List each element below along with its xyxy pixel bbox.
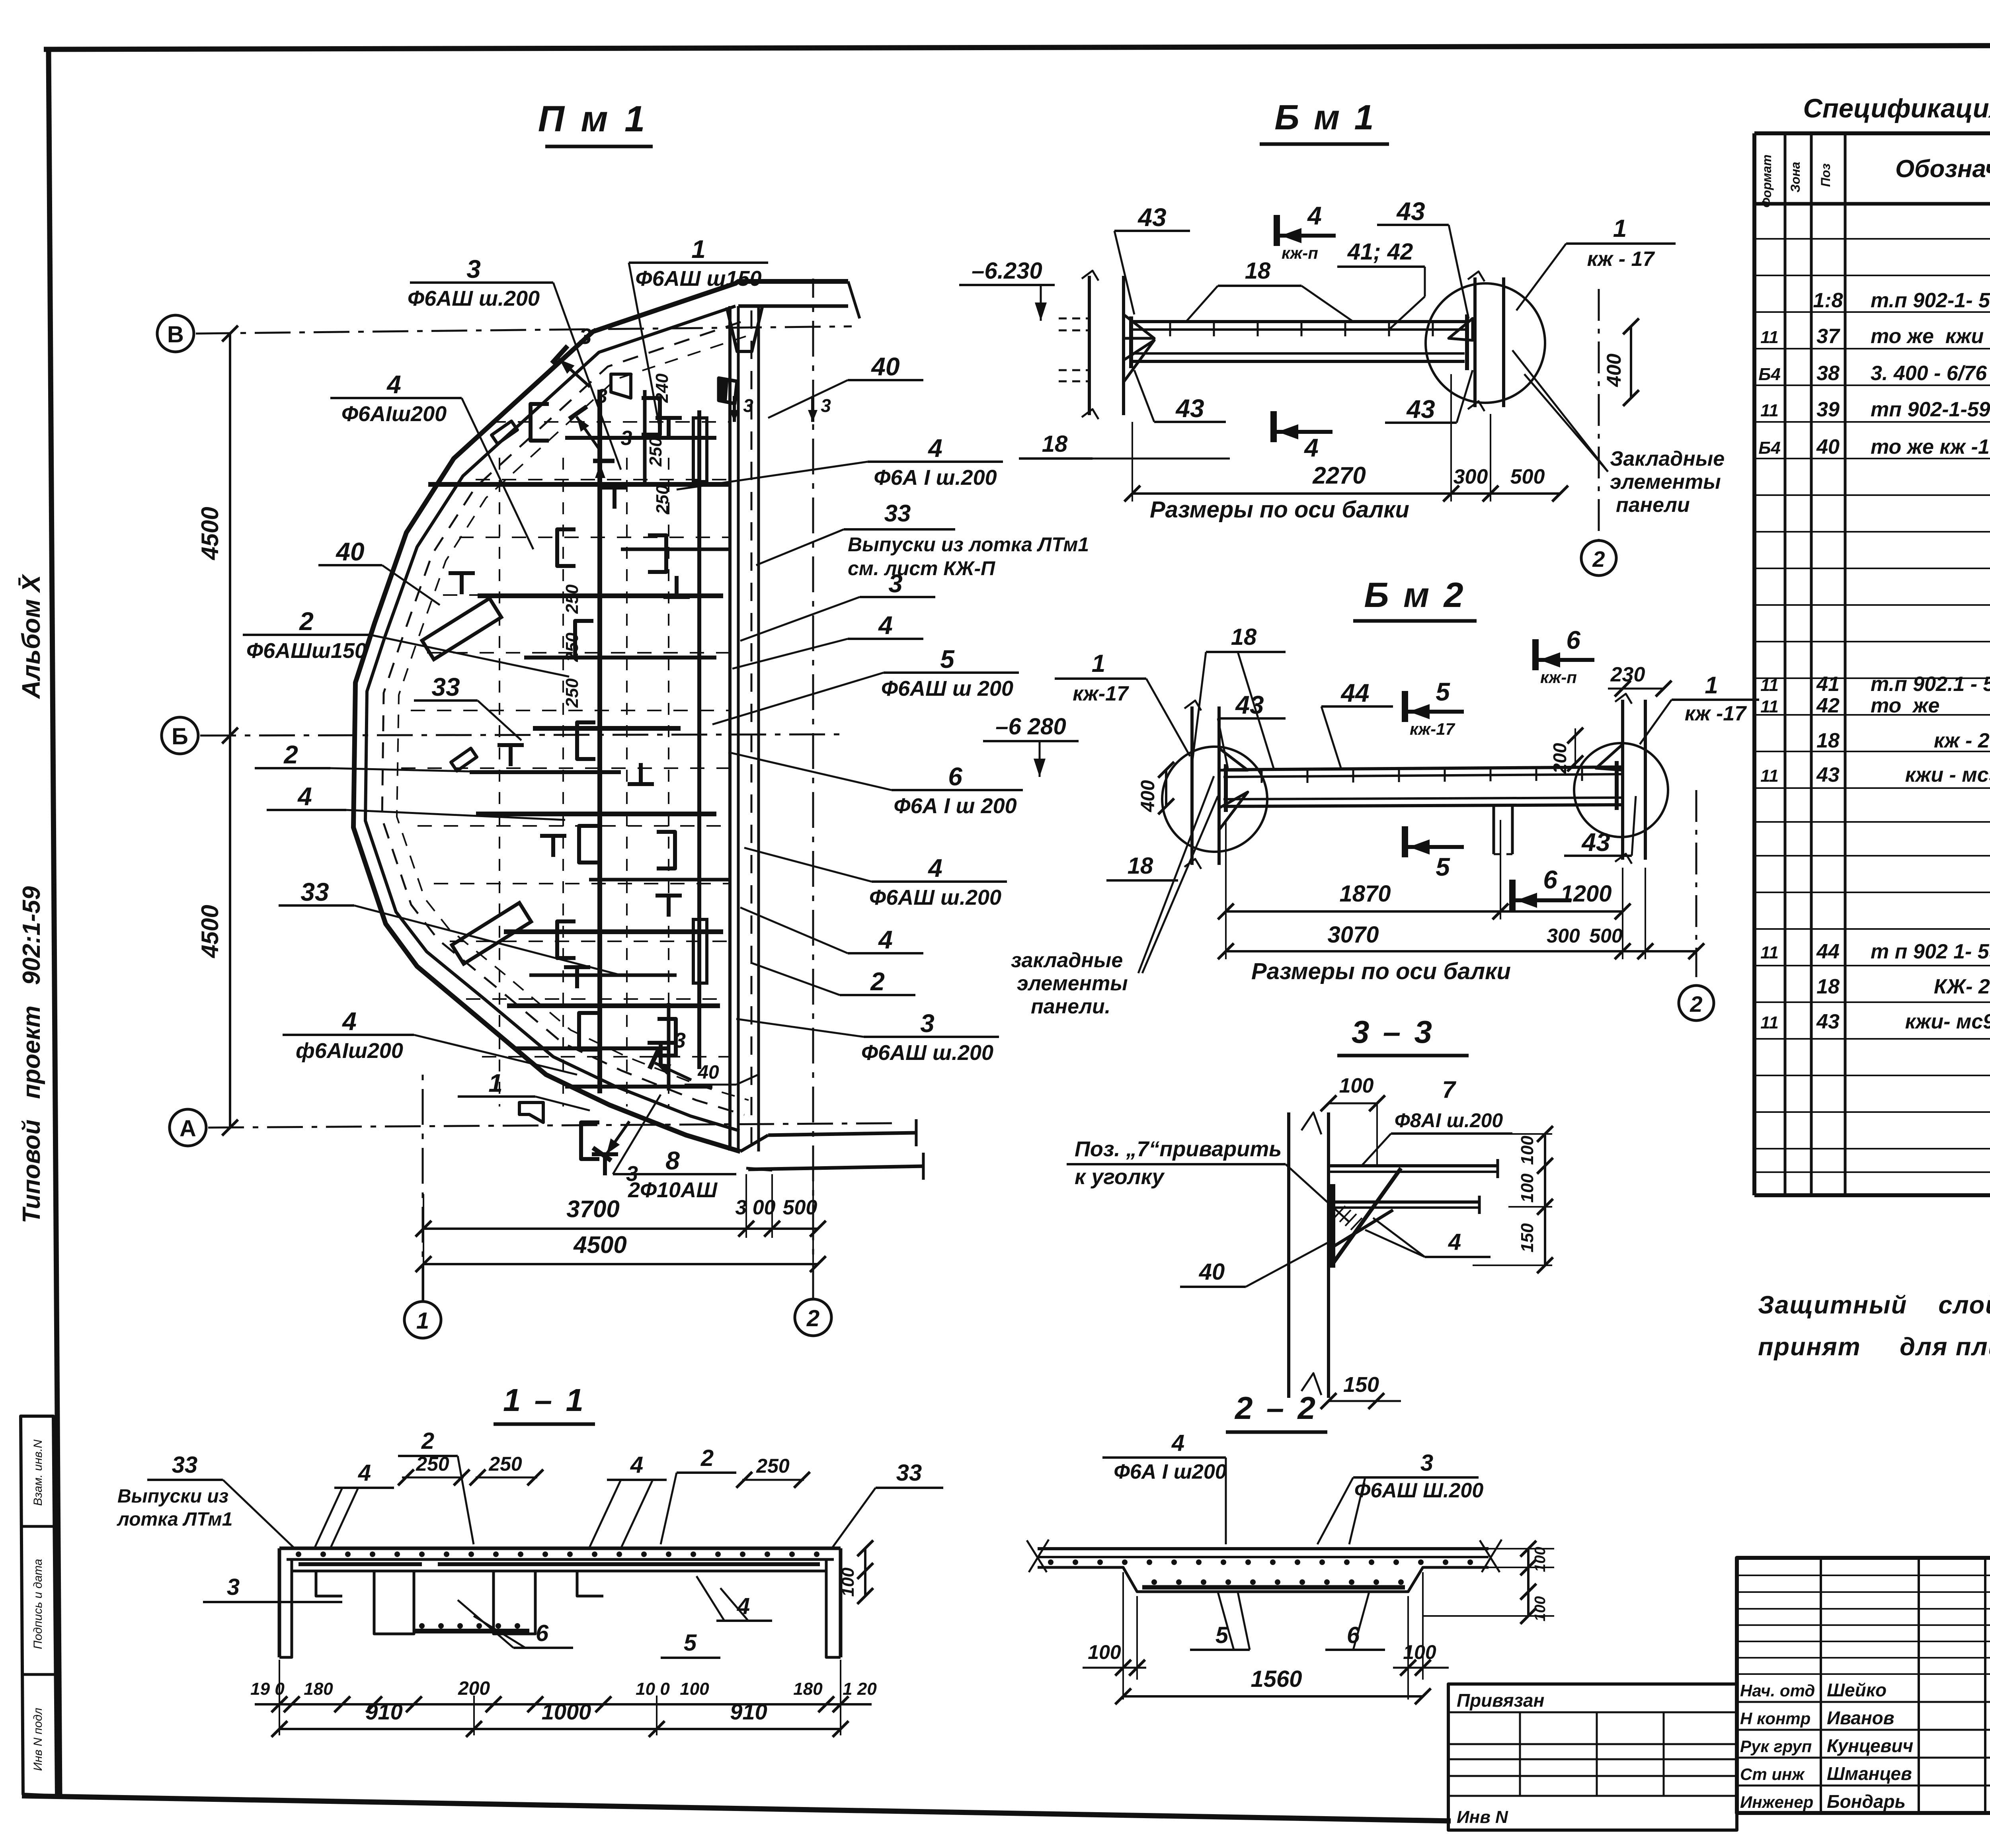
- svg-text:кж -17: кж -17: [1685, 702, 1747, 725]
- svg-text:то же кж -16: то же кж -16: [1871, 435, 1990, 459]
- svg-text:Зона: Зона: [1788, 162, 1803, 192]
- svg-text:кж-17: кж-17: [1073, 682, 1129, 705]
- Бм2 beam bottom inner line: [1223, 798, 1623, 799]
- svg-text:1: 1: [1613, 215, 1627, 242]
- svg-text:Выпуски из лотка ЛТм1: Выпуски из лотка ЛТм1: [848, 533, 1089, 556]
- svg-text:3: 3: [621, 427, 632, 450]
- Бм1 dim extension lines: [1132, 422, 1133, 502]
- svg-text:11: 11: [1760, 328, 1779, 347]
- svg-text:100: 100: [1532, 1547, 1549, 1572]
- Бм1 beam left end plate: [1129, 316, 1133, 368]
- svg-text:250: 250: [646, 437, 665, 467]
- svg-text:43: 43: [1175, 394, 1204, 423]
- Бм2 left wall break bottom: [1184, 859, 1201, 869]
- svg-text:43: 43: [1396, 197, 1425, 226]
- svg-text:11: 11: [1760, 1013, 1779, 1032]
- Бм2 axis dash-dot vertical: [1695, 790, 1697, 977]
- drawing sheet frame, top border line: [44, 45, 1990, 49]
- panel Пм1 bottom ledge bottom line: [748, 1166, 923, 1169]
- Бм2 right wall line b: [1644, 700, 1647, 860]
- svg-text:ф6АIш200: ф6АIш200: [296, 1039, 403, 1063]
- svg-text:Защитный слой бетона: Защитный слой бетона до рабочей арматуры: [1758, 1291, 1990, 1319]
- svg-text:33: 33: [431, 673, 460, 701]
- svg-text:2: 2: [1690, 991, 1702, 1017]
- svg-text:4500: 4500: [197, 905, 223, 958]
- svg-text:Альбом X̄: Альбом X̄: [17, 574, 45, 699]
- svg-text:250: 250: [416, 1453, 449, 1475]
- svg-text:1: 1: [1705, 672, 1718, 699]
- svg-text:Взам. инв.N: Взам. инв.N: [31, 1439, 45, 1506]
- Бм1 left anchor triangle upper: [1124, 314, 1154, 338]
- svg-text:1: 1: [488, 1069, 503, 1097]
- svg-text:4: 4: [1171, 1430, 1184, 1456]
- svg-text:4: 4: [630, 1452, 643, 1478]
- svg-text:910: 910: [730, 1699, 767, 1724]
- spec table header bottom line: [1754, 202, 1990, 206]
- title Бм2 underline: [1353, 619, 1477, 623]
- 3-3 wall break bottom: [1301, 1373, 1321, 1395]
- Бм2 cut 5 bottom: [1405, 826, 1464, 857]
- svg-text:Размеры по оси балки: Размеры по оси балки: [1150, 497, 1409, 523]
- svg-text:кж-п: кж-п: [1282, 244, 1318, 262]
- svg-text:40: 40: [1816, 435, 1840, 459]
- Бм2 dim 400 left: [1165, 770, 1167, 806]
- Бм2 beam left end plate: [1224, 764, 1228, 812]
- left margin stamp divider 2: [23, 1673, 56, 1676]
- svg-text:43: 43: [1816, 763, 1840, 786]
- panel Пм1 bottom ledge right end: [915, 1119, 918, 1146]
- Привязан box: [1448, 1684, 1737, 1830]
- section cut 3 lower-mid: [650, 1048, 698, 1087]
- drawing sheet frame, bottom border line: [22, 1796, 1451, 1821]
- svg-text:4: 4: [297, 782, 312, 811]
- svg-text:2: 2: [283, 740, 298, 769]
- svg-text:6: 6: [1566, 626, 1580, 654]
- svg-text:Ф8АI ш.200: Ф8АI ш.200: [1395, 1109, 1503, 1132]
- svg-text:1: 1: [416, 1308, 429, 1334]
- axis circle А: [170, 1109, 206, 1146]
- Бм2 left anchor triangle: [1219, 748, 1248, 770]
- panel Пм1 right wall line 3 dashed: [751, 310, 753, 1146]
- Пм1 left vertical dimension line: [229, 334, 231, 1128]
- svg-text:Поз. „7“приварить: Поз. „7“приварить: [1075, 1137, 1282, 1161]
- svg-text:1: 1: [1092, 650, 1105, 677]
- Пм1 dim line 4500: [423, 1263, 818, 1265]
- Бм2 beam top inner line: [1223, 774, 1623, 777]
- Бм2 beam top flange line: [1223, 767, 1623, 770]
- svg-text:3700: 3700: [566, 1196, 619, 1222]
- svg-text:Привязан: Привязан: [1457, 1690, 1544, 1711]
- svg-text:150: 150: [1518, 1223, 1537, 1253]
- rebar horizontal bar h7: [507, 1003, 720, 1008]
- svg-text:2: 2: [870, 967, 885, 996]
- svg-text:Б м 1: Б м 1: [1274, 98, 1376, 137]
- svg-text:см. лист КЖ-П: см. лист КЖ-П: [848, 557, 995, 580]
- Бм1 right wall line b: [1502, 277, 1505, 407]
- section cut 3 upper-mid: [593, 461, 615, 502]
- svg-text:4: 4: [878, 611, 893, 640]
- svg-text:Б м 2: Б м 2: [1364, 575, 1465, 615]
- svg-text:Бондарь: Бондарь: [1827, 1791, 1906, 1812]
- svg-text:42: 42: [1816, 694, 1840, 717]
- 2-2 rebar dots top: [1048, 1559, 1054, 1565]
- svg-text:Б: Б: [172, 724, 188, 749]
- Бм1 beam right end plate: [1465, 314, 1469, 370]
- Бм1 left wall break bottom: [1082, 409, 1098, 419]
- svg-text:2270: 2270: [1312, 462, 1366, 489]
- panel Пм1 second dashed contour: [397, 336, 749, 1100]
- svg-text:41: 41: [1816, 673, 1840, 696]
- svg-text:100: 100: [1518, 1136, 1537, 1165]
- 3-3 angle diagonal 2: [1331, 1210, 1393, 1248]
- 1-1 slab soffit line: [292, 1570, 826, 1573]
- svg-text:33: 33: [300, 878, 329, 906]
- section cut 3 top-right: [569, 406, 611, 453]
- svg-text:Б4: Б4: [1758, 438, 1781, 458]
- Пм1 dim line 3700/300/500: [423, 1227, 818, 1230]
- Бм1 left wall break top: [1082, 271, 1098, 281]
- axis circle 2 bottom: [795, 1299, 831, 1336]
- Бм2 left wall line a: [1190, 706, 1194, 865]
- svg-text:400: 400: [1603, 353, 1625, 387]
- svg-text:лотка ЛТм1: лотка ЛТм1: [117, 1509, 232, 1530]
- svg-text:Ф6А I ш 200: Ф6А I ш 200: [894, 794, 1016, 818]
- Бм2 detail circle left end: [1162, 747, 1267, 852]
- svg-text:3 00: 3 00: [735, 1196, 775, 1219]
- svg-text:40: 40: [335, 537, 364, 566]
- svg-text:11: 11: [1760, 401, 1779, 420]
- svg-text:250: 250: [562, 678, 582, 708]
- svg-text:10 0: 10 0: [636, 1679, 670, 1699]
- svg-text:Ст инж: Ст инж: [1740, 1765, 1805, 1784]
- svg-text:2: 2: [806, 1306, 819, 1331]
- svg-text:500: 500: [1589, 925, 1623, 947]
- Бм2 left wall line b: [1217, 706, 1221, 865]
- svg-text:1200: 1200: [1560, 881, 1612, 907]
- svg-text:1:8: 1:8: [1813, 289, 1843, 312]
- svg-text:принят для плит - 15мм, дл: принят для плит - 15мм, для балок 25мм: [1758, 1333, 1990, 1361]
- svg-text:100: 100: [838, 1567, 858, 1597]
- svg-text:250: 250: [562, 584, 582, 614]
- Бм2 stirrup ticks: [1261, 769, 1263, 783]
- svg-text:180: 180: [793, 1679, 823, 1699]
- Бм2 cut 6/кж-п top: [1535, 639, 1594, 670]
- svg-text:Спецификация элементов монолит: Спецификация элементов монолитной констр…: [1803, 94, 1990, 123]
- panel Пм1 right wall line 4: [757, 306, 760, 1151]
- svg-text:4: 4: [1303, 433, 1319, 462]
- svg-text:4: 4: [1307, 201, 1322, 230]
- corner angle mid left: [451, 748, 477, 771]
- svg-text:3: 3: [227, 1574, 240, 1600]
- svg-text:300: 300: [1547, 925, 1580, 947]
- svg-text:кж-17: кж-17: [1410, 720, 1455, 738]
- 2-2 slab top line: [1038, 1547, 1489, 1550]
- 1-1 rebar dots top: [296, 1551, 301, 1557]
- svg-text:В: В: [167, 322, 184, 347]
- title block small grid verticals: [1820, 1558, 1822, 1813]
- embedded plate rotated rect 1: [422, 598, 501, 659]
- 1-1 dim line upper: [255, 1703, 872, 1706]
- svg-text:Иванов: Иванов: [1827, 1707, 1894, 1728]
- 3-3 right dim chain: [1544, 1134, 1546, 1265]
- svg-text:33: 33: [172, 1452, 198, 1478]
- svg-text:Размеры по оси балки: Размеры по оси балки: [1251, 958, 1511, 984]
- svg-text:6: 6: [948, 762, 962, 791]
- axis circle Б: [162, 717, 198, 754]
- svg-text:200: 200: [1549, 743, 1570, 774]
- extra rebar bars: [565, 436, 716, 440]
- Бм1 right wall line a: [1473, 277, 1477, 407]
- Бм2 right anchor triangle: [1596, 744, 1623, 770]
- Бм1 cut 4 bottom: [1274, 411, 1333, 442]
- svg-text:100: 100: [1532, 1596, 1549, 1621]
- Бм2 circled 2: [1679, 985, 1714, 1021]
- rebar horizontal bar h2: [478, 593, 723, 598]
- svg-text:то же кжи мн 12: то же кжи мн 12: [1871, 325, 1990, 348]
- svg-text:250: 250: [488, 1453, 522, 1475]
- svg-text:4: 4: [927, 854, 942, 882]
- title 3-3 underline: [1337, 1054, 1469, 1058]
- svg-text:2: 2: [1592, 546, 1605, 572]
- svg-text:4500: 4500: [197, 507, 223, 560]
- svg-text:5: 5: [684, 1630, 697, 1656]
- corner angle top left: [492, 421, 517, 444]
- title block small grid horizontals: [1737, 1575, 1990, 1576]
- svg-text:4: 4: [341, 1007, 357, 1036]
- spec table vertical grid: [1752, 133, 1756, 1195]
- Бм2 tab below beam: [1492, 806, 1495, 854]
- svg-text:11: 11: [1760, 943, 1779, 962]
- 3-3 weld hatch: [1334, 1206, 1345, 1218]
- svg-text:3: 3: [1420, 1450, 1433, 1476]
- svg-text:Ф6А I ш200: Ф6А I ш200: [1114, 1460, 1226, 1483]
- section cut 3 bottom: [593, 1113, 636, 1161]
- svg-text:11: 11: [1760, 675, 1779, 695]
- panel Пм1 top ledge bottom line: [738, 304, 848, 308]
- rebar horizontal bar h6: [504, 929, 723, 934]
- svg-text:Закладные: Закладные: [1610, 447, 1725, 470]
- svg-text:18: 18: [1816, 729, 1840, 752]
- svg-text:закладные: закладные: [1011, 949, 1123, 972]
- Бм2 right wall line a: [1621, 700, 1624, 860]
- Бм2 cut 5/кж-17: [1405, 691, 1464, 722]
- svg-text:250: 250: [653, 485, 672, 515]
- svg-text:то же: то же: [1871, 694, 1939, 717]
- svg-text:КЖ- 20: КЖ- 20: [1871, 975, 1990, 998]
- 2-2 left cut mark: [1027, 1540, 1047, 1572]
- Бм1 detail circle right end: [1426, 283, 1545, 403]
- Бм2 dim line 1870/1200: [1226, 910, 1623, 913]
- svg-text:А: А: [179, 1116, 196, 1142]
- Бм2 beam right end plate: [1615, 761, 1619, 810]
- 1-1 right step: [577, 1571, 603, 1596]
- 2-2 rebar dots bottom: [1151, 1579, 1157, 1585]
- svg-text:–6 280: –6 280: [995, 714, 1066, 740]
- 1-1 rib B: [494, 1571, 535, 1634]
- svg-text:3: 3: [674, 1028, 686, 1052]
- svg-text:3: 3: [466, 255, 481, 283]
- svg-text:4: 4: [878, 925, 893, 954]
- svg-text:1000: 1000: [542, 1699, 591, 1724]
- title block outer box: [1737, 1558, 1990, 1813]
- svg-text:кж - 17: кж - 17: [1587, 248, 1655, 271]
- svg-text:18: 18: [1042, 431, 1068, 457]
- svg-text:43: 43: [1137, 203, 1166, 232]
- svg-text:250: 250: [562, 632, 582, 662]
- svg-text:37: 37: [1816, 325, 1840, 348]
- axis line 1 (dash-dot vertical): [422, 1075, 424, 1302]
- svg-text:43: 43: [1581, 828, 1610, 857]
- vertical plate rect near axis1: [693, 418, 707, 482]
- Бм2 left wall break top: [1184, 701, 1201, 710]
- rebar horizontal bar h8: [514, 1046, 668, 1050]
- svg-text:Нач. отд: Нач. отд: [1740, 1681, 1815, 1700]
- svg-text:кж-п: кж-п: [1540, 668, 1577, 687]
- svg-text:44: 44: [1340, 679, 1369, 707]
- svg-text:11: 11: [1760, 697, 1779, 716]
- 2-2 slab soffit with drop: [1038, 1567, 1489, 1592]
- Привязан box inner lines: [1448, 1711, 1737, 1713]
- panel Пм1 top ledge top line: [738, 280, 848, 283]
- svg-text:к уголку: к уголку: [1075, 1165, 1165, 1189]
- Бм1 cut 4/кж-п top: [1277, 215, 1336, 246]
- column capital trapezoid: [727, 307, 762, 351]
- 3-3 wall break top: [1301, 1112, 1321, 1134]
- Бм1 left anchor dashes: [1059, 318, 1089, 320]
- Бм1 axis2 dash-dot vertical: [1598, 289, 1600, 541]
- svg-text:100: 100: [1518, 1173, 1537, 1203]
- svg-text:элементы: элементы: [1610, 470, 1721, 494]
- Бм2 cut 6 bottom: [1512, 880, 1571, 911]
- Бм1 dimension line 2270/300/500: [1132, 492, 1560, 495]
- svg-text:Инв N: Инв N: [1457, 1807, 1508, 1827]
- title 2-2 underline: [1226, 1430, 1327, 1434]
- 3-3 wall vertical left: [1287, 1112, 1290, 1398]
- svg-text:18: 18: [1816, 975, 1840, 998]
- axis circle В: [157, 315, 194, 352]
- svg-text:5: 5: [940, 645, 955, 673]
- svg-text:Формат: Формат: [1760, 154, 1774, 208]
- svg-text:тп 902-1-59-КЖИ - МН13: тп 902-1-59-КЖИ - МН13: [1871, 398, 1990, 421]
- svg-text:4: 4: [927, 434, 942, 462]
- svg-text:Типовой проект 902:1-59: Типовой проект 902:1-59: [18, 886, 45, 1223]
- embedded plate trapezoid right wall: [719, 378, 737, 404]
- svg-text:5: 5: [1436, 677, 1450, 706]
- svg-text:300: 300: [1453, 465, 1488, 488]
- Бм2 right wall break top: [1615, 694, 1632, 704]
- left margin stamp cells box: [21, 1416, 57, 1796]
- svg-text:1 – 1: 1 – 1: [503, 1382, 586, 1418]
- 2-2 drop thick bottom: [1142, 1585, 1405, 1590]
- svg-text:18: 18: [1231, 624, 1257, 650]
- rebar horizontal bar h3: [524, 656, 716, 660]
- svg-text:Поз: Поз: [1818, 164, 1833, 187]
- svg-text:44: 44: [1816, 940, 1840, 963]
- svg-text:1: 1: [691, 235, 706, 263]
- svg-text:Инв N подл: Инв N подл: [31, 1708, 45, 1771]
- svg-text:Ф6АШ ш.200: Ф6АШ ш.200: [869, 886, 1001, 909]
- Привязан box verticals: [1519, 1712, 1521, 1796]
- 1-1 rebar dots mid: [419, 1623, 425, 1629]
- svg-text:250: 250: [756, 1455, 790, 1477]
- svg-text:100: 100: [1088, 1641, 1121, 1663]
- svg-text:Ф6АШ ш.200: Ф6АШ ш.200: [408, 287, 540, 310]
- Бм1 beam bottom inner line: [1129, 352, 1465, 355]
- 3-3 wall vertical right: [1327, 1112, 1330, 1398]
- 3-3 top rebar pair: [1329, 1164, 1498, 1167]
- svg-text:100: 100: [680, 1679, 709, 1699]
- svg-text:2 – 2: 2 – 2: [1234, 1390, 1318, 1426]
- svg-text:Выпуски из: Выпуски из: [117, 1486, 228, 1507]
- svg-text:1870: 1870: [1339, 881, 1391, 907]
- svg-text:4: 4: [358, 1460, 371, 1486]
- Бм2 detail circle right end: [1574, 743, 1668, 837]
- svg-text:38: 38: [1816, 362, 1840, 385]
- 1-1 slab second line: [287, 1558, 834, 1561]
- panel Пм1 bottom ledge top line: [768, 1133, 916, 1135]
- svg-text:11: 11: [1760, 766, 1779, 786]
- svg-text:41; 42: 41; 42: [1347, 239, 1413, 265]
- svg-text:3: 3: [579, 324, 591, 349]
- svg-text:1560: 1560: [1251, 1666, 1302, 1692]
- Бм1 beam top flange line: [1129, 320, 1469, 323]
- svg-text:Ф6АШш150: Ф6АШш150: [246, 639, 367, 663]
- Бм2 beam bottom line: [1223, 805, 1623, 806]
- 1-1 left step: [316, 1571, 342, 1596]
- svg-text:панели.: панели.: [1031, 995, 1110, 1018]
- svg-text:400: 400: [1137, 780, 1159, 812]
- svg-text:500: 500: [1510, 465, 1545, 488]
- svg-text:кжи - мс9: кжи - мс9: [1871, 763, 1990, 786]
- svg-text:т.п 902.1 - 59 – КЖ-19: т.п 902.1 - 59 – КЖ-19: [1871, 673, 1990, 696]
- svg-text:Подпись и дата: Подпись и дата: [31, 1559, 45, 1649]
- svg-text:3: 3: [920, 1009, 935, 1038]
- spec table top line: [1754, 131, 1990, 135]
- rebar vertical bar v2: [697, 410, 701, 1069]
- 1-1 dim 100 rotated (right): [864, 1548, 866, 1596]
- 2-2 slab second line: [1038, 1556, 1489, 1558]
- svg-text:элементы: элементы: [1017, 972, 1128, 995]
- svg-text:Ф6А I ш.200: Ф6А I ш.200: [874, 466, 997, 490]
- 1-1 rebar bar right: [438, 1562, 820, 1566]
- svg-text:Б4: Б4: [1758, 365, 1781, 384]
- svg-text:кж - 20: кж - 20: [1871, 729, 1990, 752]
- svg-text:Шманцев: Шманцев: [1827, 1763, 1912, 1784]
- svg-text:500: 500: [783, 1196, 817, 1219]
- drawing sheet frame, left border line: [49, 49, 60, 1796]
- Бм1 beam top inner line: [1129, 328, 1469, 331]
- svg-text:Ф6АШ Ш.200: Ф6АШ Ш.200: [1354, 1479, 1484, 1502]
- Бм1 right wall break bottom: [1468, 401, 1485, 411]
- panel Пм1 outer outline: [353, 281, 848, 1151]
- svg-text:18: 18: [1128, 853, 1153, 879]
- svg-text:43: 43: [1816, 1010, 1840, 1033]
- svg-text:40: 40: [1199, 1259, 1225, 1285]
- Бм1 left anchor triangle lower: [1124, 340, 1154, 382]
- panel Пм1 inner dashed contour: [382, 322, 744, 1115]
- 3-3 angle diagonal: [1331, 1168, 1401, 1266]
- svg-text:т.п 902-1- 59 -кж - 20: т.п 902-1- 59 -кж - 20: [1871, 289, 1990, 312]
- svg-text:18: 18: [1245, 258, 1271, 284]
- embedded channel symbols: [531, 404, 549, 441]
- 2-2 right dim chain: [1527, 1549, 1530, 1616]
- section cut 3 top: [552, 346, 601, 393]
- svg-text:Шейко: Шейко: [1827, 1680, 1887, 1700]
- left margin stamp divider 1: [22, 1525, 55, 1528]
- svg-text:43: 43: [1235, 691, 1264, 719]
- 3-3 bottom rebar pair: [1329, 1200, 1479, 1204]
- svg-text:т п 902 1- 59 - КЖ-19: т п 902 1- 59 - КЖ-19: [1871, 940, 1990, 963]
